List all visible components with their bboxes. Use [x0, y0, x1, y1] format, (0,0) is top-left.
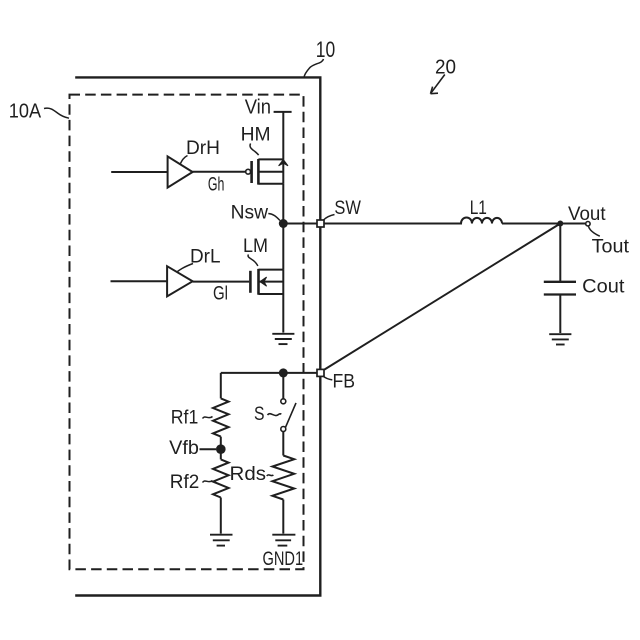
transistor HM — [246, 159, 288, 185]
svg-text:SW: SW — [334, 198, 361, 219]
ground below Rds (GND1) — [272, 535, 295, 546]
svg-text:L1: L1 — [470, 198, 487, 219]
svg-text:DrH: DrH — [186, 138, 220, 159]
svg-text:10A: 10A — [9, 101, 42, 123]
terminal SW square — [317, 220, 324, 227]
wire Nsw to SW terminal — [283, 223, 317, 225]
leader HM — [250, 144, 259, 156]
transistor LM — [250, 269, 283, 295]
wire FB rail — [221, 372, 317, 374]
capacitor Cout — [544, 282, 576, 295]
Vfb lead line — [200, 448, 217, 450]
wire SW to L1 — [324, 223, 462, 225]
svg-text:GND1: GND1 — [263, 549, 304, 570]
leader DrH — [180, 156, 188, 165]
svg-text:20: 20 — [435, 57, 456, 79]
buffer DrL — [167, 266, 193, 296]
ground below Rf2 — [210, 535, 233, 546]
svg-text:DrL: DrL — [190, 246, 221, 267]
LM drain lead — [259, 269, 284, 271]
wire Rf2 to ground — [220, 498, 222, 534]
wire Gl (DrL output to LM gate) — [193, 281, 250, 283]
wire Nsw to LM drain — [282, 224, 284, 270]
wire Gh (DrH output to HM gate) — [193, 171, 246, 173]
svg-text:Cout: Cout — [582, 276, 625, 297]
svg-text:S: S — [254, 404, 265, 425]
HM channel bar — [257, 159, 260, 185]
ground below LM — [272, 334, 294, 344]
node Nsw dot — [279, 219, 288, 228]
inductor L1 — [461, 217, 502, 223]
HM bulk lead — [258, 171, 283, 173]
leader Nsw — [268, 214, 280, 221]
wire Vout down to Cout — [559, 224, 561, 282]
node Vout dot — [557, 221, 563, 227]
node on FB rail — [279, 368, 288, 377]
leader from label 10A to dashed box — [44, 108, 69, 118]
LM vertical conductor — [282, 270, 284, 294]
LM source lead — [259, 293, 284, 295]
svg-text:Nsw: Nsw — [231, 202, 269, 223]
wire input DrH — [111, 171, 167, 173]
wire FB rail corner down to Rf1 — [220, 373, 222, 399]
LM channel bar — [257, 269, 260, 295]
leader SW — [324, 215, 335, 221]
ground below Cout — [549, 334, 571, 344]
svg-text:Tout: Tout — [592, 237, 630, 258]
wire Vout to Tout — [560, 223, 585, 225]
wire switch to Rds — [282, 432, 284, 456]
resistor Rds — [272, 456, 294, 500]
svg-text:Vfb: Vfb — [169, 438, 199, 459]
buffer DrH — [168, 156, 193, 187]
terminal FB square — [317, 369, 324, 376]
terminal Tout circle — [586, 222, 590, 226]
leader Rds tilde — [267, 475, 274, 476]
wire Rf1 to Vfb — [220, 437, 222, 460]
LM bulk lead — [259, 281, 284, 283]
wire L1 to Vout — [502, 223, 560, 225]
switch S upper contact — [281, 399, 286, 404]
arrow for label 20 — [431, 75, 445, 94]
block box 10A (dashed) — [70, 95, 304, 570]
HM source lead — [258, 183, 283, 185]
node Vfb dot — [216, 444, 226, 454]
Vin rail tick — [274, 111, 292, 113]
LM arrow (left) — [260, 277, 267, 286]
block box 10 (solid, open on left) — [75, 77, 320, 595]
switch S lower contact — [281, 427, 286, 432]
wire Vout to FB (diagonal) — [324, 224, 560, 370]
wire input DrL — [111, 280, 168, 282]
svg-text:FB: FB — [333, 371, 356, 392]
leader from label 10 to box — [304, 59, 324, 77]
leader LM — [248, 255, 258, 267]
resistor Rf2 — [213, 459, 229, 497]
wire Rds to ground — [282, 500, 284, 534]
HM gate bar — [250, 161, 253, 183]
svg-text:Gh: Gh — [208, 175, 225, 196]
svg-text:HM: HM — [241, 125, 271, 146]
resistor Rf1 — [213, 398, 229, 436]
wire HM source to Nsw — [282, 184, 284, 224]
HM drain lead — [258, 158, 283, 160]
HM arrow (up) — [279, 160, 288, 166]
wire Cout to ground — [559, 295, 561, 334]
svg-text:Gl: Gl — [213, 283, 228, 304]
leader Rf2 tilde — [203, 481, 213, 483]
svg-text:Rds: Rds — [230, 464, 267, 485]
switch S: wire from node to upper contact — [282, 373, 284, 399]
svg-text:Vin: Vin — [245, 96, 271, 118]
HM gate bubble — [246, 169, 251, 174]
LM gate bar — [249, 271, 252, 293]
wire LM source to ground — [282, 294, 284, 333]
HM vertical conductor — [282, 159, 284, 183]
leader DrL — [178, 264, 194, 272]
svg-text:Rf1: Rf1 — [171, 407, 199, 428]
svg-text:Rf2: Rf2 — [170, 472, 200, 493]
leader FB — [323, 376, 333, 380]
svg-text:LM: LM — [243, 236, 268, 257]
leader Tout — [588, 226, 599, 236]
switch S arm — [285, 403, 296, 428]
leader S tilde — [268, 414, 282, 416]
svg-text:10: 10 — [316, 37, 335, 62]
wire Vin to HM drain — [282, 112, 284, 159]
leader Rf1 tilde — [203, 417, 213, 419]
